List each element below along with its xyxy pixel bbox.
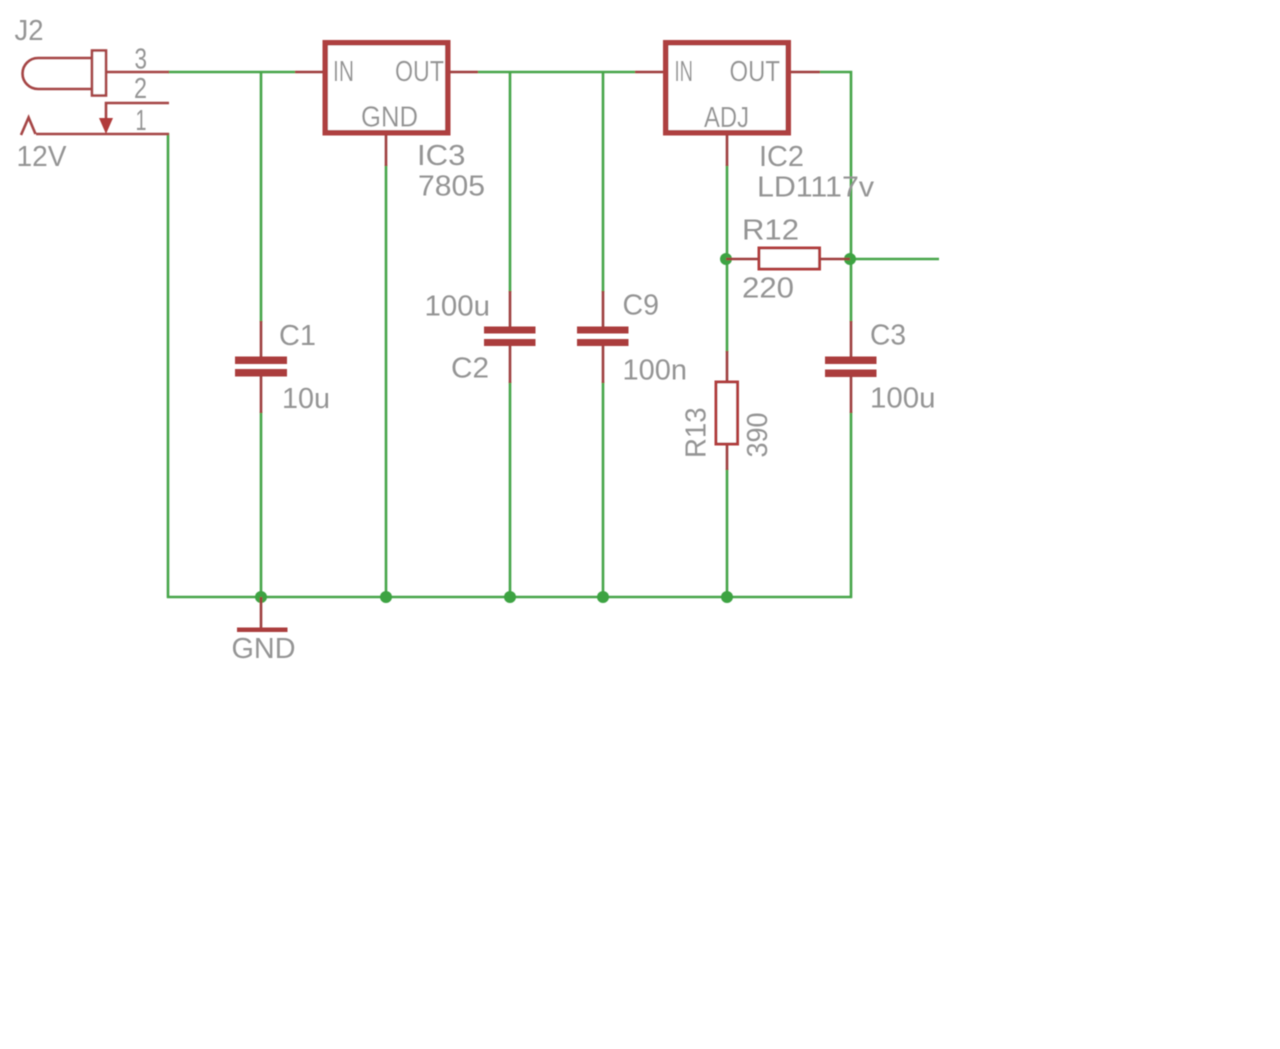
- wire: IC3 GND vertical to rail (green): [385, 165, 388, 598]
- wire: regulated output line to the right (green): [850, 258, 939, 261]
- wire: C2 branch vertical upper (green): [509, 71, 512, 292]
- svg-text:GND: GND: [361, 102, 418, 134]
- svg-text:IN: IN: [333, 56, 354, 88]
- svg-text:IC2: IC2: [759, 141, 804, 173]
- svg-text:10u: 10u: [282, 383, 330, 415]
- IC3 IN pin stub: [295, 71, 323, 74]
- svg-text:ADJ: ADJ: [704, 102, 749, 134]
- wire: C9 branch vertical upper (green): [602, 71, 605, 292]
- svg-text:R13: R13: [681, 408, 713, 459]
- resistor R12: [759, 248, 820, 269]
- svg-text:C3: C3: [870, 320, 906, 352]
- IC2 IN pin stub: [635, 71, 663, 74]
- C3 bottom lead: [850, 376, 853, 413]
- voltage regulator IC2 LD1117v: [666, 43, 789, 133]
- R12 left lead: [726, 258, 758, 261]
- IC2 ADJ pin stub: [726, 135, 729, 166]
- svg-text:100u: 100u: [425, 291, 491, 323]
- svg-text:OUT: OUT: [730, 56, 781, 88]
- connector J2 (DC barrel jack): [21, 51, 169, 136]
- C2 top lead: [509, 291, 512, 327]
- svg-text:12V: 12V: [17, 141, 68, 173]
- C9 top lead: [602, 291, 605, 327]
- wire: IC2 ADJ vertical to R13 (green): [726, 165, 729, 352]
- wire: C1 branch vertical upper (green): [260, 71, 263, 322]
- wire: C1 branch vertical lower (green): [260, 412, 263, 598]
- wire: IC3 OUT to IC2 IN (green): [478, 71, 635, 74]
- ground symbol: [260, 597, 263, 628]
- R13 bottom lead: [726, 445, 729, 470]
- svg-text:C9: C9: [623, 290, 660, 322]
- capacitor C9: [577, 327, 629, 347]
- C1 top lead: [260, 321, 263, 357]
- svg-text:390: 390: [742, 413, 774, 458]
- wire: C3 bottom to rail corner (green): [850, 412, 853, 598]
- svg-text:3: 3: [135, 44, 148, 76]
- node: junction dot ADJ/R12: [720, 253, 732, 265]
- node: junction dot R12/output: [844, 253, 856, 265]
- svg-text:GND: GND: [232, 633, 296, 665]
- R12 right lead: [820, 258, 850, 261]
- wire: R13 bottom to rail (green): [726, 469, 729, 598]
- wire: left vertical from J2 pin1 down to ground rail (green): [167, 133, 170, 598]
- svg-text:IC3: IC3: [417, 140, 466, 172]
- node: junction dot rail C2: [504, 591, 516, 603]
- capacitor C2: [484, 327, 536, 347]
- svg-text:R12: R12: [742, 215, 799, 247]
- svg-text:7805: 7805: [418, 171, 485, 203]
- wire: C2 branch vertical lower (green): [509, 382, 512, 598]
- wire: IC2 OUT corner to C3 top (green): [820, 72, 851, 322]
- node: junction dot rail C9: [597, 591, 609, 603]
- C1 bottom lead: [260, 376, 263, 413]
- capacitor C1: [235, 357, 287, 377]
- svg-text:220: 220: [742, 273, 794, 305]
- node: junction dot rail R13: [721, 591, 733, 603]
- IC2 OUT pin stub: [791, 71, 820, 74]
- capacitor C3: [825, 357, 877, 378]
- voltage regulator IC3 7805: [325, 43, 448, 133]
- connector J2 pin2 switch arrow: [99, 118, 113, 134]
- svg-text:2: 2: [134, 73, 147, 105]
- IC3 OUT pin stub: [450, 71, 478, 74]
- node: junction dot rail IC3 GND: [380, 591, 392, 603]
- svg-text:LD1117v: LD1117v: [757, 172, 875, 204]
- node: junction dot rail C1: [255, 591, 267, 603]
- svg-text:1: 1: [136, 105, 147, 137]
- R13 top lead: [726, 351, 729, 381]
- wire: C9 branch vertical lower (green): [602, 382, 605, 598]
- IC3 GND pin stub: [385, 135, 388, 166]
- wire: 12V net J2 pin3 to IC3 IN (green): [168, 71, 295, 74]
- svg-text:100u: 100u: [870, 383, 936, 415]
- svg-text:100n: 100n: [623, 355, 688, 387]
- svg-text:J2: J2: [15, 15, 44, 47]
- C3 top lead: [850, 321, 853, 357]
- C2 bottom lead: [509, 346, 512, 383]
- svg-text:C2: C2: [451, 353, 489, 385]
- svg-text:C1: C1: [279, 320, 316, 352]
- wire: ground rail (green): [167, 596, 852, 599]
- resistor R13: [716, 382, 738, 444]
- C9 bottom lead: [602, 346, 605, 383]
- svg-text:IN: IN: [675, 56, 694, 88]
- svg-text:OUT: OUT: [395, 56, 444, 88]
